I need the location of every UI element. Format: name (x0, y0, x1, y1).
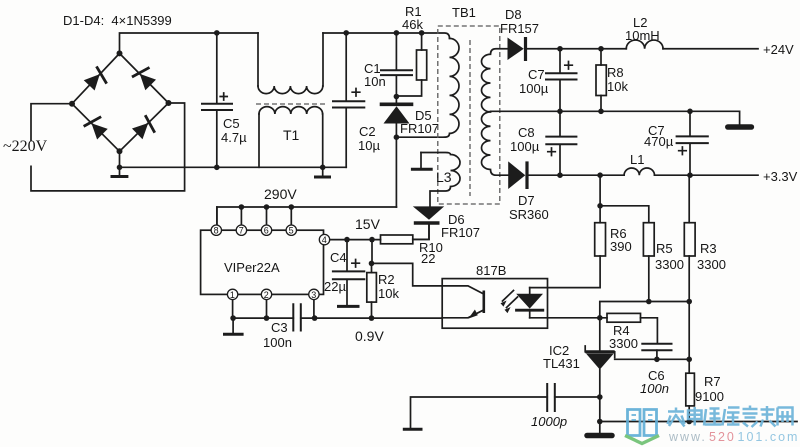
pin 2 (261, 289, 271, 318)
wire: +24V rail (526, 42, 795, 57)
label ~220V (3, 138, 48, 155)
svg-text:9100: 9100 (695, 389, 724, 404)
wire: mid 0V rail (491, 109, 740, 125)
pin 6 (261, 204, 271, 235)
svg-text:100µ: 100µ (519, 81, 549, 96)
ground (mid rail, solid bar) (728, 124, 752, 130)
svg-text:R3: R3 (700, 241, 717, 256)
svg-text:FR157: FR157 (500, 21, 539, 36)
pin 8 (211, 207, 221, 236)
svg-text:7: 7 (239, 226, 244, 236)
ground (L3) (411, 153, 433, 170)
resistor R5 (643, 223, 684, 302)
diode D7 (508, 161, 549, 222)
IC2 TL431 (543, 343, 615, 434)
pin 4 (319, 234, 329, 245)
svg-text:FR107: FR107 (400, 121, 439, 136)
ground (bridge) (111, 165, 129, 177)
svg-text:R7: R7 (704, 374, 721, 389)
diode D8 (500, 7, 539, 61)
wire: R5 R6 feed from 3.3V (597, 175, 649, 223)
pin 1 (227, 289, 237, 318)
wire: D5 junction to primary bottom and drain (394, 134, 445, 207)
svg-text:L3: L3 (436, 169, 452, 185)
inductor L2 (625, 15, 663, 49)
svg-text:22µ: 22µ (324, 279, 346, 294)
svg-text:8: 8 (214, 226, 219, 236)
diode D3 (bridge lower-left) (84, 113, 111, 140)
wire: TL431 cathode node (600, 299, 692, 350)
node bridge right (166, 100, 172, 106)
svg-text:C3: C3 (271, 320, 288, 335)
resistor R10 (381, 225, 443, 266)
wire: opto LED cathode to TL431 cathode and R4 (530, 315, 607, 321)
svg-text:D1-D4: 4×1N5399: D1-D4: 4×1N5399 (63, 13, 172, 28)
svg-text:C4: C4 (330, 250, 347, 265)
resistor R7 (686, 373, 724, 424)
svg-text:101.com: 101.com (738, 430, 800, 444)
svg-text:D8: D8 (505, 7, 522, 22)
svg-text:470µ: 470µ (644, 134, 674, 149)
pin 5 (286, 204, 296, 235)
ground (C3 / pins 1-2) (223, 318, 244, 334)
svg-text:4: 4 (322, 235, 327, 245)
svg-text:3300: 3300 (609, 336, 638, 351)
svg-text:R8: R8 (607, 65, 624, 80)
svg-text:+3.3V: +3.3V (763, 169, 798, 184)
transformer TB1 primary winding (445, 38, 460, 137)
svg-text:817B: 817B (476, 263, 506, 278)
inductor L1 (624, 152, 654, 175)
capacitor 1000p (411, 384, 603, 429)
svg-text:10k: 10k (378, 286, 399, 301)
watermark chinese text (668, 406, 793, 428)
svg-text:~220V: ~220V (3, 138, 48, 155)
watermark url (668, 430, 799, 444)
wire: bottom DC- rail (120, 151, 347, 167)
resistor R4 (607, 313, 657, 351)
svg-text:D7: D7 (518, 193, 535, 208)
node bridge bottom (117, 148, 123, 154)
svg-text:1: 1 (230, 290, 235, 300)
svg-text:0.9V: 0.9V (355, 328, 384, 344)
ground (1000p) (403, 428, 423, 431)
capacitor C7 470u (644, 111, 708, 175)
capacitor C6 (640, 344, 672, 396)
watermark book icon (625, 410, 659, 444)
svg-text:22: 22 (421, 251, 435, 266)
pin 3 (309, 289, 319, 318)
svg-text:6: 6 (264, 226, 269, 236)
wire: Vdd 15V line (330, 216, 381, 242)
wire: 290V drain rail (217, 186, 397, 227)
svg-text:C8: C8 (518, 125, 535, 140)
svg-text:R2: R2 (378, 272, 395, 287)
wire: DC+ rail T1 to primary (323, 33, 450, 38)
svg-text:10k: 10k (607, 79, 628, 94)
svg-text:TB1: TB1 (452, 5, 476, 20)
svg-text:SR360: SR360 (509, 207, 549, 222)
transformer TB1 secondary winding bottom (481, 112, 508, 175)
T1 core (256, 103, 326, 105)
svg-text:C5: C5 (223, 116, 240, 131)
capacitor C7 100u (519, 49, 577, 112)
wire: TL431 ref line (615, 357, 692, 363)
capacitor C2 (333, 30, 380, 167)
bridge edge wires (72, 53, 169, 151)
node bridge top (117, 50, 123, 56)
diode D5 (380, 97, 439, 138)
resistor R2 (367, 240, 400, 321)
svg-text:L1: L1 (630, 152, 644, 167)
svg-text:5: 5 (289, 226, 294, 236)
svg-text:290V: 290V (264, 186, 297, 202)
svg-text:VIPer22A: VIPer22A (224, 260, 280, 275)
inductor T1 top winding (258, 33, 323, 94)
svg-text:10mH: 10mH (625, 28, 660, 43)
svg-text:520: 520 (709, 430, 736, 444)
diode D4 (bridge lower-right) (132, 115, 159, 142)
svg-text:+24V: +24V (763, 42, 794, 57)
svg-text:10µ: 10µ (358, 138, 380, 153)
capacitor C5 (202, 30, 247, 170)
op-amp U1 VIPer22A (201, 230, 324, 294)
capacitor C1 (364, 30, 412, 96)
capacitor C3 (263, 304, 301, 350)
transformer TB1 secondary winding top (481, 49, 507, 112)
svg-text:390: 390 (610, 239, 632, 254)
ground (C4) (337, 305, 360, 308)
capacitor C8 (510, 111, 576, 178)
svg-text:3300: 3300 (697, 257, 726, 272)
diode D1 (bridge upper-left) (84, 66, 111, 93)
svg-text:10n: 10n (364, 74, 386, 89)
label D1-D4 4x1N5399 (63, 13, 172, 28)
wire: +3.3V rail (527, 169, 798, 184)
opto phototransistor (442, 286, 484, 319)
svg-text:www.: www. (668, 430, 707, 444)
svg-text:FR107: FR107 (441, 225, 480, 240)
wire: bridge top to DC+ rail (120, 33, 259, 53)
svg-text:R5: R5 (656, 241, 673, 256)
wire: opto LED anode to R6 (530, 256, 600, 288)
svg-text:2: 2 (264, 290, 269, 300)
svg-text:C7: C7 (528, 67, 545, 82)
svg-text:15V: 15V (355, 216, 381, 232)
svg-text:3300: 3300 (655, 257, 684, 272)
svg-text:1000p: 1000p (531, 414, 567, 429)
optocoupler 817B box (442, 263, 547, 328)
transformer TB1 dashed outline (438, 5, 500, 204)
svg-text:4.7µ: 4.7µ (221, 130, 247, 145)
svg-text:100n: 100n (640, 381, 669, 396)
svg-text:C2: C2 (359, 124, 376, 139)
opto LED (515, 288, 544, 318)
pin 7 (236, 204, 246, 235)
wire: AC input loop (31, 103, 185, 191)
winding L3 (421, 153, 460, 207)
svg-text:TL431: TL431 (543, 356, 580, 371)
ground (TL431, solid bar) (587, 433, 612, 439)
resistor R1 (394, 4, 427, 99)
inductor T1 bottom winding (259, 107, 323, 168)
diode D2 (bridge upper-right) (132, 64, 159, 91)
resistor R3 (684, 175, 726, 373)
svg-text:3: 3 (311, 290, 316, 300)
svg-text:T1: T1 (283, 127, 300, 143)
node bridge left (69, 101, 75, 107)
wire: bottom return rail (597, 419, 797, 425)
resistor R8 (596, 49, 628, 112)
wire: R2 top to opto collector (372, 263, 443, 286)
resistor R6 (595, 206, 632, 256)
wire: FB 0.9V line (230, 315, 442, 344)
svg-text:100µ: 100µ (510, 139, 540, 154)
ground (T1 bottom) (314, 165, 331, 178)
svg-text:100n: 100n (263, 335, 292, 350)
capacitor C4 (324, 240, 364, 306)
opto light arrows (501, 291, 518, 314)
svg-text:46k: 46k (402, 17, 423, 32)
diode D6 (413, 206, 480, 240)
